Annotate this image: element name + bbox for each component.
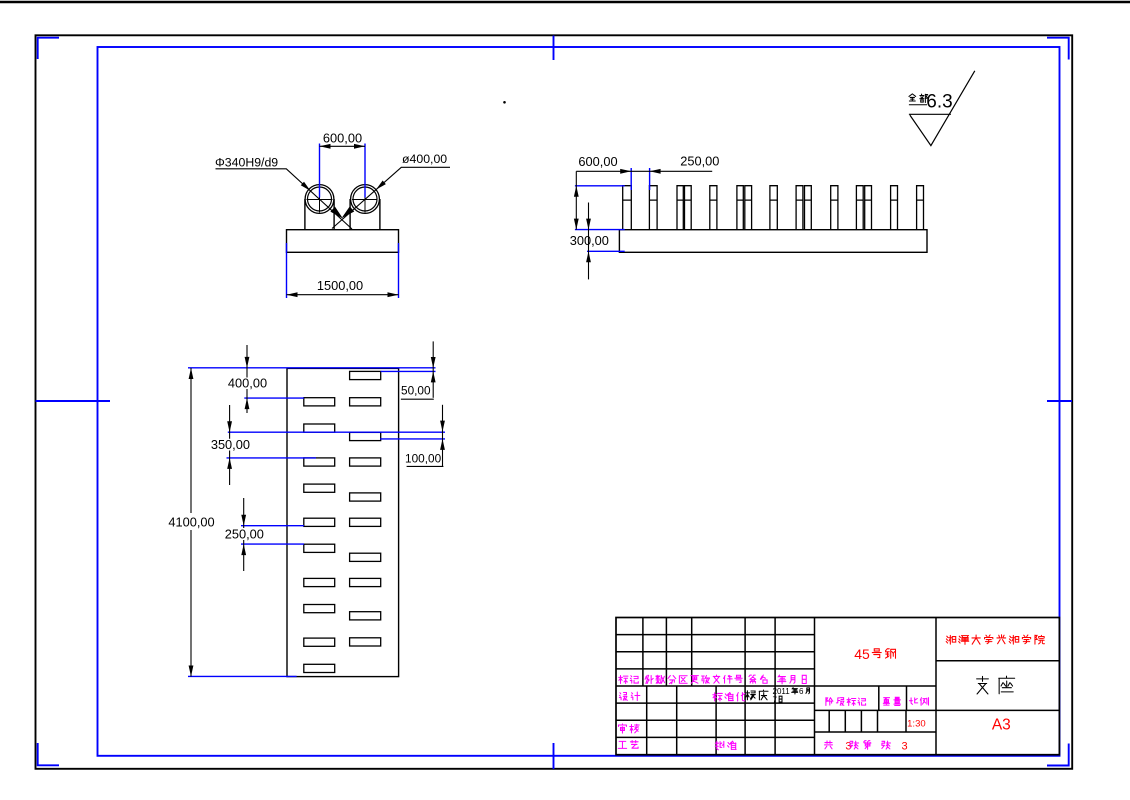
slot right 5 bbox=[350, 493, 381, 501]
svg-text:250,00: 250,00 bbox=[680, 154, 719, 169]
dim 300,00 vertical line bbox=[588, 203, 590, 280]
slot right 1 bbox=[350, 371, 381, 379]
left cylinder sides bbox=[305, 199, 334, 230]
svg-text:4100,00: 4100,00 bbox=[168, 515, 214, 530]
right circle centerlines bbox=[352, 187, 378, 213]
leader ø400 big arrow bbox=[339, 206, 354, 220]
centering mark left bbox=[36, 400, 111, 402]
slot left 7 bbox=[304, 578, 335, 586]
side view base bar bbox=[619, 230, 927, 253]
tooth 8 bbox=[770, 186, 777, 230]
tooth 13 bbox=[865, 186, 872, 230]
dim 1500,00 extension lines (blue) bbox=[287, 243, 399, 298]
slot left 9 bbox=[304, 638, 335, 646]
tooth 14 bbox=[891, 186, 898, 230]
drawing frame (blue) bbox=[98, 47, 1060, 756]
tooth 3 bbox=[677, 186, 683, 230]
svg-text:6.3: 6.3 bbox=[926, 92, 952, 113]
dim 250,00 line bbox=[243, 498, 245, 571]
slot right 8 bbox=[350, 578, 381, 586]
top edge line bbox=[0, 1, 1130, 3]
tooth 5 bbox=[710, 186, 717, 230]
svg-text:1500,00: 1500,00 bbox=[317, 278, 363, 293]
leader Φ340 line bbox=[216, 169, 353, 229]
centering mark right bbox=[1047, 400, 1072, 402]
label 签名 bbox=[749, 675, 756, 683]
svg-text:600,00: 600,00 bbox=[578, 154, 617, 169]
label 阶段标记 bbox=[826, 698, 833, 706]
tooth 12 bbox=[856, 186, 863, 230]
svg-text:6: 6 bbox=[799, 687, 804, 696]
全部 text bbox=[909, 94, 916, 101]
svg-text:600,00: 600,00 bbox=[323, 131, 362, 146]
slot right 4 bbox=[350, 458, 381, 466]
school 湘潭大学兴湘学院 bbox=[946, 635, 956, 644]
centering mark top bbox=[553, 36, 555, 61]
tooth 2 bbox=[649, 186, 657, 230]
right cylinder bore circle bbox=[353, 187, 377, 211]
label 批准 bbox=[715, 741, 724, 750]
tooth 4 bbox=[685, 186, 692, 230]
tooth 10 bbox=[805, 186, 812, 230]
side view extension lines (blue) bbox=[575, 168, 650, 251]
plan view outline bbox=[287, 368, 399, 676]
label 更改文件号 bbox=[691, 676, 699, 684]
label 审核 bbox=[619, 724, 627, 733]
slot left 10 bbox=[304, 664, 335, 672]
tooth 7 bbox=[745, 186, 752, 230]
slot right 9 bbox=[350, 612, 381, 620]
label 工艺 bbox=[618, 741, 626, 748]
label 重量 bbox=[883, 698, 889, 705]
tooth 11 bbox=[831, 186, 838, 230]
svg-text:Φ340H9/d9: Φ340H9/d9 bbox=[215, 155, 278, 169]
stray dot bbox=[503, 101, 506, 104]
dim 600,00 line bbox=[320, 145, 366, 147]
right cylinder outer circle bbox=[351, 185, 380, 214]
slot right 7 bbox=[350, 553, 381, 561]
slot right 3 bbox=[350, 432, 381, 440]
svg-text:ø400,00: ø400,00 bbox=[402, 152, 447, 166]
signature 杨庆 bbox=[745, 691, 755, 700]
slot left 2 bbox=[304, 424, 335, 432]
label 比例 bbox=[910, 698, 918, 704]
svg-text:3: 3 bbox=[901, 741, 907, 753]
svg-text:1:30: 1:30 bbox=[907, 718, 926, 729]
left cylinder bore circle bbox=[308, 187, 332, 211]
slot left 1 bbox=[304, 398, 335, 406]
svg-text:350,00: 350,00 bbox=[211, 437, 250, 452]
surface finish symbol bbox=[909, 71, 975, 146]
dim 600,00 extension lines (blue) bbox=[320, 144, 366, 198]
title block outline bbox=[616, 618, 1059, 755]
svg-text:A3: A3 bbox=[992, 717, 1011, 734]
svg-text:45: 45 bbox=[854, 646, 870, 662]
corner mark bottom-left bbox=[38, 743, 59, 765]
dim 50,00 line bbox=[432, 341, 434, 397]
dim 600/250 horizontal line bbox=[576, 170, 712, 172]
slot left 6 bbox=[304, 544, 335, 552]
right cylinder sides bbox=[350, 199, 380, 230]
tooth 15 bbox=[917, 186, 924, 230]
plan view extension lines (blue) bbox=[188, 367, 436, 369]
label 年月日 bbox=[777, 675, 785, 684]
left circle centerlines bbox=[307, 187, 333, 213]
dim 4100,00 line bbox=[190, 368, 192, 677]
corner mark top-left bbox=[38, 38, 59, 59]
slot left 3 bbox=[304, 458, 335, 466]
slot left 5 bbox=[304, 518, 335, 526]
corner mark bottom-right bbox=[1047, 744, 1069, 766]
left cylinder outer circle bbox=[305, 185, 334, 214]
leader ø400 line bbox=[332, 167, 450, 228]
dim 400,00 line bbox=[246, 345, 248, 413]
slot left 8 bbox=[304, 605, 335, 613]
label 处数 bbox=[645, 675, 653, 683]
slot right 6 bbox=[350, 518, 381, 526]
svg-text:100,00: 100,00 bbox=[405, 452, 442, 466]
tooth 1 bbox=[623, 186, 632, 230]
label 设计 bbox=[619, 693, 627, 701]
tooth 6 bbox=[737, 186, 743, 230]
label 标记 bbox=[619, 676, 628, 684]
slot right 2 bbox=[350, 398, 381, 406]
corner mark top-right bbox=[1047, 38, 1069, 60]
leader Φ340 big arrow bbox=[330, 207, 345, 221]
svg-text:3: 3 bbox=[845, 741, 851, 753]
svg-text:300,00: 300,00 bbox=[570, 233, 609, 248]
label 分区 bbox=[668, 676, 676, 684]
dim 350,00 line bbox=[229, 405, 231, 485]
slot left 4 bbox=[304, 484, 335, 492]
dim 100,00 line bbox=[442, 405, 444, 467]
centering mark bottom bbox=[553, 743, 555, 769]
label 标准化 bbox=[713, 693, 723, 701]
front view base plate bbox=[287, 230, 399, 253]
part name 支座 bbox=[977, 676, 989, 694]
svg-text:7: 7 bbox=[773, 695, 778, 704]
dim 600,00 vertical line bbox=[575, 171, 577, 229]
tooth 9 bbox=[796, 186, 803, 230]
svg-text:50,00: 50,00 bbox=[401, 383, 431, 397]
svg-text:250,00: 250,00 bbox=[225, 527, 264, 542]
slot right 10 bbox=[350, 638, 381, 646]
svg-text:400,00: 400,00 bbox=[228, 376, 267, 391]
sheet count 共 3张 第 张 3 bbox=[825, 741, 833, 749]
dim 1500,00 line bbox=[287, 294, 399, 296]
